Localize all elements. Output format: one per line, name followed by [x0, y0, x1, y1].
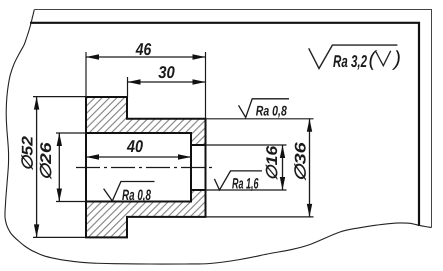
- extension line dia52 bottom: [33, 236, 86, 238]
- hatching: bottom band under bore: [127, 202, 191, 217]
- extension line dia52 top: [33, 96, 86, 98]
- svg-text:40: 40: [126, 137, 143, 156]
- bore *26 bottom edge: [85, 201, 191, 203]
- dimension dia 36: [309, 119, 311, 217]
- svg-text:∅36: ∅36: [293, 142, 310, 182]
- extension line dia16 bottom: [206, 189, 287, 191]
- sheet edge thin line (top and right): [35, 10, 432, 228]
- bore *16 top edge: [190, 144, 207, 146]
- extension line at left face: [85, 52, 87, 97]
- dimension 46: [86, 56, 206, 58]
- svg-text:∅26: ∅26: [38, 142, 55, 180]
- svg-text:Ra 0,8: Ra 0,8: [122, 187, 151, 204]
- svg-text:∅16: ∅16: [264, 145, 281, 180]
- hatching: flange top band: [86, 97, 127, 133]
- roughness Ra 0,8 on dia36 surface: [239, 99, 290, 118]
- general roughness Ra 3,2 top right: [309, 45, 398, 68]
- extension line dia16 top: [206, 144, 287, 146]
- extension line dia36 top: [206, 118, 314, 120]
- dimension 40: [86, 156, 191, 158]
- dimension 30: [128, 81, 206, 83]
- extension line dia26 top: [56, 132, 86, 134]
- svg-text:Ra 3,2: Ra 3,2: [333, 52, 367, 71]
- svg-text:46: 46: [135, 40, 152, 59]
- hatching: top band over bore: [127, 119, 191, 133]
- svg-text:∅52: ∅52: [20, 136, 37, 171]
- roughness Ra 0,8 on dia26 bore: [104, 182, 155, 202]
- bore step wall: [190, 132, 192, 203]
- centerline (axis, dash-dot): [76, 167, 213, 169]
- dimension dia 52: [36, 97, 38, 238]
- extension line dia26 bottom: [56, 201, 86, 203]
- hatching: flange bottom band: [86, 202, 127, 238]
- dimension dia 16: [282, 145, 284, 190]
- hatching: bottom band right of bore step: [191, 190, 206, 217]
- svg-text:Ra 1,6: Ra 1,6: [232, 176, 259, 193]
- hatching: top band right of bore step: [191, 119, 206, 145]
- dimension dia 26: [58, 133, 60, 202]
- roughness Ra 1,6 on dia16 bore: [214, 171, 262, 190]
- bore *16 bottom edge: [190, 189, 207, 191]
- svg-text:30: 30: [158, 63, 175, 82]
- svg-text:Ra 0,8: Ra 0,8: [256, 103, 287, 119]
- part outline: flange + body: [86, 97, 206, 237]
- extension line dia36 bottom: [206, 216, 314, 218]
- extension line at step: [127, 77, 129, 97]
- extension line at right face: [205, 52, 207, 119]
- bore *26 top edge: [85, 132, 191, 134]
- drawing frame thick border (top and right): [30, 23, 419, 226]
